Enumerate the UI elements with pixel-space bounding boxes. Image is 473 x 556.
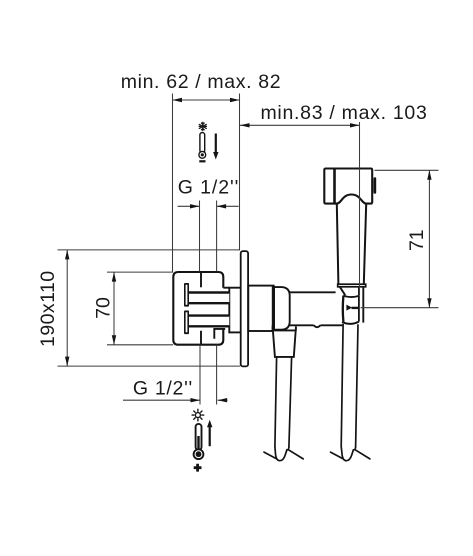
valve hose	[275, 357, 292, 448]
body parting line top	[200, 272, 202, 287]
sprayer hose break symbol	[331, 447, 370, 461]
escutcheon front thick edge	[272, 286, 275, 331]
svg-text:190x110: 190x110	[37, 270, 59, 347]
dimension 190x110	[37, 250, 240, 366]
sprayer head cap divider	[333, 169, 336, 204]
cold water icon: thermometer	[199, 133, 206, 163]
svg-text:min. 62 / max. 82: min. 62 / max. 82	[121, 71, 282, 93]
sprayer head	[324, 169, 372, 204]
holder nut	[342, 287, 359, 324]
dimension G 1/2 bottom	[123, 345, 228, 405]
svg-text:min.83 / max. 103: min.83 / max. 103	[260, 102, 427, 124]
dimension G 1/2 top	[178, 201, 239, 272]
wall plate	[241, 251, 248, 366]
cold water icon: down arrow	[213, 134, 218, 160]
hot water icon: sun	[192, 409, 204, 421]
dimension min. 62 / max. 82	[121, 71, 282, 272]
sprayer handle	[337, 204, 366, 285]
escutcheon front thick edge (over dome)	[272, 286, 275, 331]
svg-text:G 1/2'': G 1/2''	[178, 177, 239, 199]
svg-text:70: 70	[93, 297, 115, 319]
cold supply tee bar	[184, 284, 189, 306]
valve hose break symbol	[264, 447, 303, 461]
valve dome shoulder	[274, 287, 290, 330]
hose elbow	[273, 326, 296, 331]
hot water icon: thermometer	[194, 424, 204, 459]
dimension 71	[361, 170, 439, 307]
valve cylinder	[286, 292, 344, 327]
dimension min.83 / max. 103	[240, 102, 428, 295]
svg-text:G 1/2'': G 1/2''	[133, 377, 193, 399]
hot supply tee bar	[184, 311, 189, 333]
cold water icon: snowflake	[199, 122, 206, 130]
cartridge column between body and plate	[229, 288, 241, 333]
valve body (in-wall)	[173, 272, 229, 345]
body bottom step notch	[201, 329, 225, 345]
hot supply pipe (bottom)	[188, 316, 229, 327]
cold supply pipe (top)	[188, 293, 229, 304]
svg-text:71: 71	[406, 229, 428, 251]
hot water icon: up arrow	[207, 420, 212, 446]
handle flange	[338, 284, 366, 287]
handle taper	[340, 287, 364, 323]
escutcheon	[248, 286, 273, 331]
sprayer button	[374, 177, 377, 193]
hot water icon: plus	[194, 464, 202, 472]
dimension 70	[93, 272, 174, 345]
sprayer hose	[341, 324, 358, 448]
